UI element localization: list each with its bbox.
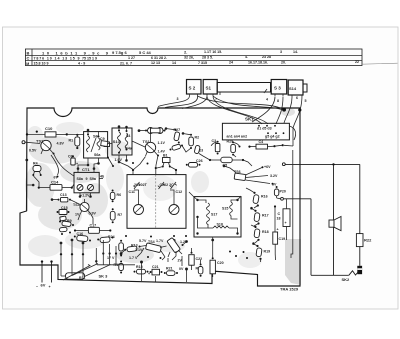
resistor R6 — [110, 190, 121, 203]
svg-text:SK 3: SK 3 — [99, 274, 109, 279]
resistor R4 — [32, 162, 41, 177]
resistor R9 cluster — [59, 219, 74, 235]
capacitor C17 — [74, 223, 112, 233]
resistor R17 — [254, 210, 269, 225]
potentiometer R11 — [61, 265, 90, 281]
svg-text:9 7.5g 6: 9 7.5g 6 — [112, 50, 127, 55]
resistor R24 — [97, 235, 114, 243]
svg-text:SK2: SK2 — [342, 277, 351, 282]
resistor R15 — [134, 265, 149, 274]
svg-text:4.: 4. — [245, 55, 248, 59]
wire +6V rail — [282, 163, 359, 234]
svg-text:g5 g4 g2: g5 g4 g2 — [265, 135, 280, 139]
capacitor C21 — [148, 265, 163, 276]
svg-text:16.17.18.16.: 16.17.18.16. — [248, 60, 268, 64]
svg-text:+1.2V: +1.2V — [80, 194, 90, 198]
resistor R19 — [256, 245, 270, 260]
wire left edge bus — [26, 159, 34, 211]
transistor TS6 — [234, 166, 270, 183]
svg-text:C20: C20 — [217, 261, 224, 265]
wire R22 to cell — [359, 247, 361, 266]
svg-text:2.: 2. — [184, 49, 187, 54]
IC module G202 — [127, 167, 186, 228]
wire R19 to C19 bus — [261, 254, 276, 262]
resistor R1 — [69, 134, 80, 149]
svg-text:2.1V: 2.1V — [135, 248, 143, 252]
svg-text:S17: S17 — [211, 213, 217, 217]
svg-text:1.7V: 1.7V — [156, 239, 164, 243]
svg-text:+6V: +6V — [264, 165, 271, 169]
capacitor C16 — [74, 232, 91, 242]
wire S13 secondary drops — [118, 155, 133, 170]
svg-text:14: 14 — [172, 61, 176, 65]
capacitor C20 — [210, 257, 224, 277]
svg-text:R22: R22 — [364, 238, 372, 243]
trimmer block CT1 — [74, 167, 105, 193]
svg-text:SK1: SK1 — [245, 117, 254, 122]
svg-text:8: 8 — [277, 99, 279, 103]
wire bundle from dial to SK1 — [158, 95, 302, 146]
svg-text:C4: C4 — [259, 140, 264, 144]
svg-text:+: + — [277, 228, 279, 232]
wire speaker return — [333, 227, 335, 275]
wire TS3 drops — [78, 214, 93, 225]
svg-text:6V: 6V — [41, 283, 46, 288]
junction node — [298, 108, 301, 111]
svg-text:CT1: CT1 — [82, 167, 90, 172]
svg-text:R29: R29 — [227, 140, 234, 144]
svg-text:S9a: S9a — [90, 177, 97, 181]
svg-text:23 28: 23 28 — [262, 55, 271, 59]
junction row mid — [102, 252, 117, 254]
svg-text:4.8V: 4.8V — [57, 142, 65, 146]
svg-text:R17: R17 — [262, 214, 269, 218]
wire CT1 pins — [77, 168, 95, 198]
svg-text:S 3: S 3 — [274, 86, 281, 91]
battery cell — [357, 266, 362, 274]
wire transformer feeds — [189, 192, 241, 265]
svg-text:TRA 1529: TRA 1529 — [280, 287, 299, 292]
svg-text:5.7V: 5.7V — [139, 239, 147, 243]
capacitor C10 — [26, 126, 68, 137]
svg-text:5: 5 — [305, 99, 307, 103]
resistor R20 — [196, 264, 203, 277]
svg-text:3.2V: 3.2V — [270, 174, 278, 178]
wire switch feeds — [60, 239, 96, 277]
resistor R16 — [253, 192, 268, 207]
junction node — [71, 253, 73, 255]
svg-text:R11: R11 — [79, 276, 85, 280]
wire bottom drops — [140, 256, 187, 282]
svg-text:17 V: 17 V — [107, 256, 115, 260]
svg-text:S 2: S 2 — [189, 86, 196, 91]
board outline — [20, 108, 300, 286]
svg-text:R6: R6 — [117, 193, 122, 197]
capacitor C26 — [186, 159, 203, 167]
svg-text:7876 10 14 13 15 9: 7876 10 14 13 15 9 — [34, 57, 80, 61]
svg-text:C22: C22 — [196, 257, 203, 261]
svg-text:S4: S4 — [126, 134, 130, 138]
wire mid drops — [103, 240, 116, 265]
svg-text:R7: R7 — [118, 213, 123, 217]
wire R16 feeds — [246, 188, 259, 246]
resistor R27 — [174, 128, 181, 144]
svg-text:3: 3 — [280, 50, 282, 54]
capacitor C14 — [38, 180, 73, 191]
capacitor C13 — [58, 193, 72, 202]
capacitor C5 — [209, 157, 244, 167]
wire C14 bus — [34, 176, 75, 188]
potentiometer S1 — [203, 80, 270, 97]
wire CT1 to S6 — [78, 164, 99, 169]
wire battery minus — [41, 260, 43, 282]
wire battery plus — [50, 260, 52, 282]
resistor R7 — [110, 208, 122, 223]
transistor TS3 — [73, 199, 91, 215]
svg-text:24: 24 — [229, 61, 233, 65]
wire speaker feed — [333, 164, 335, 219]
wire bus down right edge — [291, 150, 293, 258]
svg-text:6: 6 — [296, 96, 298, 100]
svg-text:C11: C11 — [129, 190, 135, 194]
svg-text:3: 3 — [177, 97, 179, 101]
svg-text:R21: R21 — [166, 267, 173, 271]
label 6V — [51, 155, 59, 180]
svg-text:‒: ‒ — [36, 284, 38, 288]
svg-text:7 315: 7 315 — [198, 61, 207, 65]
svg-text:C21: C21 — [152, 265, 159, 269]
coil S6 — [84, 132, 108, 158]
svg-text:S18: S18 — [217, 223, 223, 227]
resistor R23 — [194, 145, 203, 154]
svg-text:4 - 9: 4 - 9 — [78, 62, 85, 66]
wire TS4 TS5 couplings — [137, 241, 188, 261]
resistor R3 — [170, 144, 184, 151]
potentiometer S3 — [264, 80, 287, 97]
resistor R13 — [124, 244, 140, 252]
svg-text:28 3 5.: 28 3 5. — [202, 55, 213, 59]
capacitor C4 — [248, 140, 293, 149]
capacitor C18 — [277, 199, 291, 240]
svg-text:an1 an4 an2: an1 an4 an2 — [227, 135, 248, 139]
svg-text:1 27: 1 27 — [128, 56, 135, 60]
capacitor C9 — [100, 137, 108, 146]
svg-text:R19: R19 — [264, 250, 271, 254]
loudspeaker — [329, 217, 341, 231]
resistor R10 — [114, 261, 124, 274]
capacitor C6 — [68, 155, 78, 167]
node row under S13 — [107, 157, 114, 168]
wire TS1 emitter drop — [133, 156, 158, 171]
transistor TS2 — [36, 137, 55, 155]
wire R2 R23 joins — [182, 133, 210, 161]
transistor TS1 — [143, 139, 160, 157]
wire R13 feed — [120, 250, 125, 255]
svg-text:S15: S15 — [222, 207, 228, 211]
svg-text:R1: R1 — [69, 139, 74, 143]
resistor R25 — [119, 240, 124, 254]
wire P20 stub — [281, 197, 311, 275]
svg-text:18: 18 — [277, 217, 281, 221]
svg-text:32 26,: 32 26, — [184, 56, 194, 60]
capacitor C22 — [189, 252, 202, 270]
capacitor C7 — [102, 142, 110, 147]
wire S6 secondary drops — [87, 158, 99, 166]
svg-text:6 31 28 2.: 6 31 28 2. — [151, 56, 167, 60]
wire top pins S13 — [118, 126, 127, 131]
resistor R18 — [254, 226, 269, 241]
svg-text:S6a: S6a — [94, 153, 101, 157]
svg-text:M: M — [26, 62, 29, 66]
capacitor C3 — [211, 139, 220, 155]
wire C22 top — [191, 248, 193, 253]
wire R27 top rail — [165, 128, 176, 131]
svg-text:75 15 1 9: 75 15 1 9 — [82, 56, 97, 60]
junction node — [272, 183, 274, 185]
capacitor C8 — [145, 128, 166, 134]
junction dots scatter — [120, 162, 248, 259]
wire TS1 collector to C8 — [138, 130, 151, 139]
svg-text:1.1T 16 15.: 1.1T 16 15. — [204, 50, 222, 54]
switch SK3 — [72, 261, 111, 279]
calibration table — [25, 49, 397, 66]
svg-text:5 C 44: 5 C 44 — [139, 50, 152, 55]
switch SK2 — [311, 271, 359, 282]
IF transformer block S17 S15 S18 — [194, 197, 241, 237]
svg-text:9: 9 — [86, 177, 88, 181]
label 6V battery — [36, 283, 51, 290]
svg-text:R18: R18 — [262, 230, 269, 234]
junction node — [95, 260, 97, 262]
svg-text:14.: 14. — [293, 50, 298, 54]
svg-text:22: 22 — [355, 60, 359, 64]
wire TS2 base feed — [54, 154, 75, 177]
svg-text:C10: C10 — [45, 126, 53, 131]
svg-text:R16: R16 — [261, 195, 268, 199]
wire S6 pins — [87, 129, 98, 136]
resistor P20 — [274, 186, 286, 199]
potentiometer S2 — [187, 80, 202, 97]
wire TS6 collector — [223, 165, 236, 172]
svg-text:C12: C12 — [176, 190, 183, 194]
svg-text:+: + — [285, 221, 287, 225]
wire bus bottom — [97, 264, 135, 266]
wire B1 to box pin — [157, 167, 176, 170]
svg-text:0V: 0V — [179, 267, 184, 271]
junction node — [282, 108, 286, 112]
svg-text:+: + — [49, 285, 51, 289]
svg-text:C14: C14 — [51, 180, 59, 185]
svg-text:P20: P20 — [280, 190, 286, 194]
junction node — [60, 253, 62, 255]
svg-text:R4: R4 — [33, 162, 38, 166]
svg-text:15.8 10 9: 15.8 10 9 — [34, 62, 49, 66]
svg-text:4: 4 — [266, 98, 268, 102]
junction node — [82, 253, 84, 255]
svg-text:d1 d5 d3: d1 d5 d3 — [257, 127, 272, 131]
svg-text:0.9V: 0.9V — [89, 212, 97, 216]
coil S13 — [112, 128, 133, 155]
terminal on left edge — [22, 141, 40, 144]
svg-text:S1: S1 — [206, 86, 212, 91]
svg-text:10 16b11 9.9c 9: 10 16b11 9.9c 9 — [42, 51, 109, 56]
wire C5 to TS6 region — [233, 155, 252, 166]
resistor R2 — [189, 134, 199, 149]
svg-text:21. 6. 7: 21. 6. 7 — [120, 61, 132, 65]
svg-text:1.7 V: 1.7 V — [129, 256, 138, 260]
svg-text:B1: B1 — [163, 154, 168, 158]
switch S14 — [288, 80, 307, 98]
resistor R29 — [227, 140, 241, 156]
svg-text:S14: S14 — [289, 86, 297, 91]
svg-text:C13: C13 — [60, 193, 67, 197]
svg-text:C: C — [278, 212, 281, 216]
svg-text:12 13: 12 13 — [151, 61, 160, 65]
transistor TS4 — [141, 240, 165, 257]
svg-text:C19: C19 — [279, 237, 286, 241]
transistor TS5 — [167, 237, 184, 257]
capacitor C15 — [57, 206, 70, 221]
crystal B1 — [162, 154, 171, 168]
svg-text:0.5V: 0.5V — [29, 149, 37, 153]
svg-text:20.: 20. — [281, 60, 286, 64]
wire C13 TS3 — [51, 199, 80, 205]
resistor R21 — [164, 267, 178, 276]
svg-text:R2: R2 — [195, 136, 200, 140]
resistor R22 — [356, 234, 372, 247]
connector SK1 — [222, 117, 295, 141]
svg-text:1.1V: 1.1V — [158, 141, 166, 145]
wire row IF strip — [67, 134, 145, 147]
capacitor C19 — [273, 205, 285, 254]
svg-text:S8a: S8a — [77, 177, 84, 181]
svg-text:C: C — [27, 56, 30, 61]
